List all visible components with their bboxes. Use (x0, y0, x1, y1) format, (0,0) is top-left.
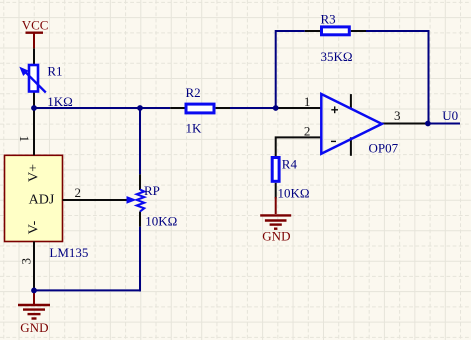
svg-text:10KΩ: 10KΩ (145, 214, 177, 229)
svg-text:R2: R2 (186, 85, 201, 100)
svg-text:U0: U0 (442, 108, 458, 123)
svg-text:1KΩ: 1KΩ (47, 94, 73, 109)
svg-text:R4: R4 (282, 157, 298, 172)
svg-text:10KΩ: 10KΩ (278, 186, 310, 201)
svg-text:OP07: OP07 (369, 140, 399, 155)
svg-text:V-: V- (26, 220, 41, 234)
svg-text:GND: GND (20, 320, 48, 335)
svg-text:RP: RP (144, 183, 160, 198)
svg-text:2: 2 (75, 185, 82, 200)
svg-text:1: 1 (17, 135, 32, 142)
svg-text:LM135: LM135 (49, 245, 88, 260)
svg-text:V+: V+ (26, 164, 41, 182)
svg-text:VCC: VCC (22, 18, 49, 33)
svg-text:1K: 1K (186, 120, 203, 135)
svg-text:1: 1 (304, 94, 311, 109)
svg-text:2: 2 (304, 123, 311, 138)
svg-text:3: 3 (394, 108, 401, 123)
svg-text:R3: R3 (321, 12, 336, 27)
svg-text:35KΩ: 35KΩ (321, 49, 353, 64)
svg-text:GND: GND (262, 229, 290, 244)
svg-text:ADJ: ADJ (29, 193, 55, 208)
svg-text:R1: R1 (47, 64, 62, 79)
svg-text:3: 3 (18, 258, 33, 265)
